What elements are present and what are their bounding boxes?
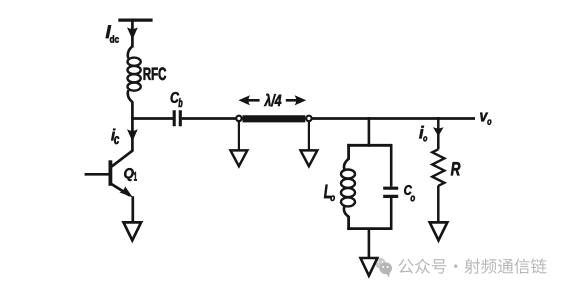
label Lo	[324, 185, 335, 201]
wire RFC to collector node	[131, 102, 134, 120]
watermark icon	[375, 258, 392, 277]
capacitor Co	[383, 188, 398, 196]
label Q1	[124, 168, 137, 181]
inductor RFC	[128, 46, 141, 102]
resistor R	[432, 149, 444, 186]
ground TL right	[301, 121, 318, 167]
wire Q1 emitter to ground	[131, 196, 134, 222]
wire node to Q1 collector	[112, 117, 133, 167]
wire R tap	[437, 117, 440, 149]
transistor Q1 base lead	[85, 173, 111, 176]
wire tank top	[347, 144, 391, 147]
current arrow ic	[127, 129, 138, 141]
label lambda/4 arrow right	[286, 95, 306, 105]
wire tank to ground	[368, 229, 371, 258]
label lambda/4 arrow left	[238, 95, 259, 105]
wire tank tap	[368, 117, 371, 147]
watermark text	[398, 258, 546, 273]
node TL left	[236, 116, 241, 121]
label Co	[404, 185, 415, 201]
label io	[419, 126, 427, 141]
wire Cb to TL left node	[182, 117, 236, 120]
wire R to ground	[437, 186, 440, 223]
ground R	[430, 222, 448, 240]
label Cb	[171, 92, 183, 107]
wire TL to output	[312, 117, 475, 120]
current arrow Idc	[127, 27, 138, 39]
ground emitter	[124, 222, 142, 240]
transmission line λ/4	[243, 115, 306, 122]
label lambda/4	[264, 94, 281, 107]
supply rail	[118, 19, 152, 22]
capacitor Cb	[174, 110, 180, 126]
transistor Q1	[110, 160, 132, 197]
current arrow io	[433, 127, 444, 136]
node TL right	[306, 116, 311, 121]
label RFC	[144, 67, 166, 80]
wire tank right top	[390, 144, 393, 187]
label vo	[480, 113, 491, 125]
wire supply to RFC	[131, 20, 134, 47]
wire tank right bottom	[390, 198, 393, 230]
label R	[451, 162, 460, 175]
label Idc	[106, 25, 119, 42]
ground TL left	[231, 121, 248, 167]
ground tank	[361, 258, 378, 276]
wire node to Cb	[131, 117, 173, 120]
inductor Lo	[341, 144, 355, 230]
label ic	[111, 129, 119, 144]
wire tank bottom	[347, 227, 391, 230]
